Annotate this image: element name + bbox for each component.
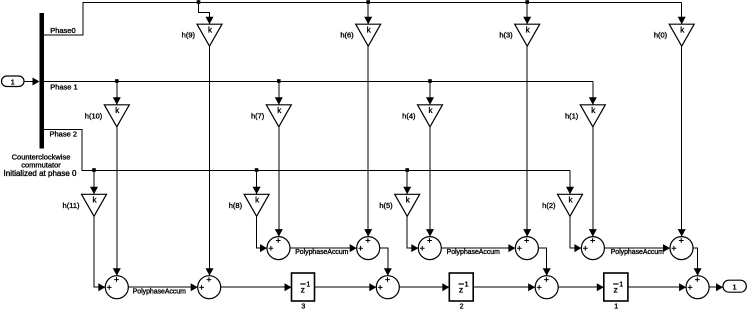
arrow SumB4 into Sum5: [694, 268, 702, 276]
wire SumB2 down to Sum3: [380, 248, 388, 276]
wire h(9) to Sum2: [209, 46, 211, 276]
value label h(1): [565, 111, 579, 120]
wire h(0) to SumB4: [681, 46, 683, 236]
value label Z2 = 2: [460, 304, 464, 311]
arrow Sum4 into Z1: [597, 283, 604, 291]
svg-text:z: z: [459, 284, 463, 294]
svg-text:h(9): h(9): [182, 31, 196, 40]
arrow h(11) into Sum1: [98, 283, 105, 291]
svg-text:Phase0: Phase0: [50, 26, 75, 35]
junction Phase2 to h(11): [92, 168, 96, 172]
arrow into h(8): [253, 187, 261, 195]
gain h(2): [558, 194, 583, 216]
label PolyphaseAccum 2: [295, 249, 348, 256]
arrow SumB2 into Sum3: [384, 268, 392, 276]
sum SumA3: [418, 237, 441, 260]
arrow into commutator: [33, 78, 40, 86]
wire Sum2 to Z3: [221, 286, 292, 288]
sum SumB4: [670, 237, 693, 260]
svg-text:h(2): h(2): [542, 201, 556, 210]
arrow into h(1): [589, 97, 597, 105]
gain h(1): [580, 105, 605, 127]
label PolyphaseAccum 3: [447, 249, 500, 256]
wire Phase0 to h(6): [367, 3, 369, 25]
arrow h(8) into SumA2: [260, 244, 267, 252]
wire In1 to commutator: [24, 81, 33, 83]
value label h(0): [654, 31, 668, 40]
svg-text:PolyphaseAccum: PolyphaseAccum: [447, 249, 500, 256]
value label h(5): [379, 201, 393, 210]
gain h(0): [669, 24, 694, 46]
arrow into h(5): [403, 187, 411, 195]
wire h(10) to Sum1: [116, 127, 118, 276]
junction Phase0 to h(3): [525, 0, 529, 4]
svg-text:h(4): h(4): [402, 111, 416, 120]
gain h(9): [197, 24, 222, 46]
sum SumB3: [515, 237, 538, 260]
svg-text:Phase 2: Phase 2: [50, 129, 78, 138]
value label Z1 = 1: [614, 304, 618, 311]
gain h(8): [244, 194, 269, 216]
arrow into h(3): [523, 17, 531, 25]
junction Phase1 to h(7): [277, 79, 281, 83]
arrow h(9) into Sum2: [206, 268, 214, 276]
wire h(2) to SumA4 left: [570, 216, 581, 248]
wire Phase0 jog to h(9): [199, 3, 210, 25]
sum Sum5: [686, 276, 709, 299]
svg-text:3: 3: [301, 304, 305, 311]
wire Phase2 from bar: [44, 130, 570, 171]
svg-text:1: 1: [614, 304, 618, 311]
commutator bar: [40, 13, 45, 149]
arrow into h(6): [364, 17, 372, 25]
svg-text:1: 1: [733, 282, 737, 291]
svg-text:Phase 1: Phase 1: [50, 82, 78, 91]
arrow h(2) into SumA4: [574, 244, 581, 252]
arrow Z2 into Sum4: [528, 283, 535, 291]
wire Phase0 from bar: [44, 3, 682, 36]
svg-text:PolyphaseAccum: PolyphaseAccum: [295, 249, 348, 256]
node Phase0 label: [50, 26, 75, 35]
sum Sum1: [105, 276, 128, 299]
wire Phase0 to h(3): [526, 3, 528, 25]
arrow h(1) into SumA4: [589, 229, 597, 237]
svg-text:Initialized at phase 0: Initialized at phase 0: [4, 169, 77, 178]
wire h(1) to SumA4: [592, 127, 594, 237]
value label h(3): [499, 31, 513, 40]
wire h(4) to SumA3: [429, 127, 431, 237]
wire Phase1 to h(4): [429, 82, 431, 105]
delay Z1: [604, 273, 628, 301]
svg-text:h(8): h(8): [229, 201, 243, 210]
svg-text:h(0): h(0): [654, 31, 668, 40]
node Phase2 label: [50, 129, 78, 138]
wire Sum3 to Z2: [399, 286, 449, 288]
arrow h(5) into SumA3: [411, 244, 418, 252]
value label h(8): [229, 201, 243, 210]
wire Z3 to Sum3: [315, 286, 377, 288]
value label Z3 = 3: [301, 304, 305, 311]
junction Phase1 to h(4): [428, 79, 432, 83]
wire SumA3 to SumB3: [441, 247, 515, 249]
wire SumA4 to SumB4: [604, 247, 670, 249]
wire Sum1 to Sum2: [128, 286, 197, 288]
value label h(6): [340, 31, 354, 40]
value label h(4): [402, 111, 416, 120]
svg-text:1: 1: [306, 281, 310, 288]
svg-text:2: 2: [460, 304, 464, 311]
gain h(6): [356, 24, 381, 46]
wire h(5) to SumA3 left: [407, 216, 418, 248]
arrow SumA2 into SumB2: [350, 244, 357, 252]
wire h(6) to SumB2: [367, 46, 369, 236]
svg-text:z: z: [614, 284, 618, 294]
wire SumB3 down to Sum4: [538, 248, 546, 276]
wire Phase1 to h(7): [278, 82, 280, 105]
value label h(7): [251, 111, 265, 120]
label PolyphaseAccum 1: [133, 288, 186, 295]
arrow Z3 into Sum3: [369, 283, 376, 291]
sum Sum3: [376, 276, 399, 299]
arrow into h(4): [426, 97, 434, 105]
input port In1: [2, 76, 25, 87]
junction Phase0 to h(6): [366, 0, 370, 4]
svg-text:h(10): h(10): [85, 111, 103, 120]
gain h(10): [104, 105, 129, 127]
sum Sum2: [198, 276, 221, 299]
arrow SumB3 into Sum4: [543, 268, 551, 276]
wire SumB4 down to Sum5: [693, 248, 698, 276]
wire Sum5 to Out1: [709, 286, 723, 288]
wire Phase2 to h(2): [569, 171, 571, 195]
wire Phase2 to h(8): [256, 171, 258, 195]
wire h(7) to SumA2: [278, 127, 280, 237]
svg-text:1: 1: [465, 281, 469, 288]
junction Phase1 to h(10): [115, 79, 119, 83]
arrow Sum2 into Z3: [285, 283, 292, 291]
wire h(11) to Sum1 left: [94, 216, 105, 287]
arrow SumA4 into SumB4: [663, 244, 670, 252]
svg-text:z: z: [301, 284, 305, 294]
svg-text:h(7): h(7): [251, 111, 265, 120]
gain h(3): [515, 24, 540, 46]
value label h(10): [85, 111, 103, 120]
arrow into h(7): [275, 97, 283, 105]
wire Phase2 to h(5): [406, 171, 408, 195]
svg-text:h(5): h(5): [379, 201, 393, 210]
value label h(9): [182, 31, 196, 40]
arrow SumA3 into SumB3: [508, 244, 515, 252]
arrow Sum5 into Out1: [716, 283, 723, 291]
junction Phase2 to h(8): [255, 168, 259, 172]
wire SumA2 to SumB2: [290, 247, 357, 249]
junction Phase2 to h(5): [405, 168, 409, 172]
sum SumB2: [357, 237, 380, 260]
svg-text:1: 1: [619, 281, 623, 288]
wire Z2 to Sum4: [473, 286, 535, 288]
wire Phase1 to h(10): [116, 82, 118, 105]
arrow h(3) into SumB3: [523, 229, 531, 237]
wire Phase0 to h(0): [681, 3, 683, 25]
sum SumA4: [581, 237, 604, 260]
output port Out1: [723, 280, 746, 292]
arrow into h(11): [90, 187, 98, 195]
svg-text:h(6): h(6): [340, 31, 354, 40]
gain h(7): [266, 105, 291, 127]
arrow h(0) into SumB4: [678, 229, 686, 237]
value label h(11): [63, 201, 80, 210]
wire Phase1 from bar: [44, 81, 593, 83]
label Counterclockwise commutator Initialized at phase 0: [4, 152, 77, 177]
junction Phase0 to h(9): [197, 0, 201, 4]
svg-text:h(3): h(3): [499, 31, 513, 40]
svg-text:PolyphaseAccum: PolyphaseAccum: [611, 249, 664, 256]
arrow into h(9): [206, 17, 214, 25]
arrow Sum3 into Z2: [442, 283, 449, 291]
value label h(2): [542, 201, 556, 210]
gain h(4): [418, 105, 443, 127]
arrow Z1 into Sum5: [679, 283, 686, 291]
svg-text:PolyphaseAccum: PolyphaseAccum: [133, 288, 186, 295]
svg-text:h(1): h(1): [565, 111, 579, 120]
delay Z3: [292, 273, 315, 301]
node Phase1 label: [50, 82, 78, 91]
svg-text:h(11): h(11): [63, 201, 80, 210]
gain h(5): [395, 194, 420, 216]
arrow Sum1 into Sum2: [191, 283, 198, 291]
svg-text:1: 1: [11, 78, 15, 87]
delay Z2: [449, 273, 473, 301]
wire Phase1 to h(1): [592, 82, 594, 105]
wire Phase2 to h(11): [93, 171, 95, 195]
arrow h(10) into Sum1: [113, 268, 121, 276]
arrow h(4) into SumA3: [426, 229, 434, 237]
sum Sum4: [535, 276, 558, 299]
arrow into h(10): [113, 97, 121, 105]
arrow into h(2): [566, 187, 574, 195]
label PolyphaseAccum 4: [611, 249, 664, 256]
wire h(8) to SumA2 left: [257, 216, 267, 248]
wire h(3) to SumB3: [526, 46, 528, 236]
wire Z1 to Sum5: [628, 286, 686, 288]
arrow h(6) into SumB2: [364, 229, 372, 237]
gain h(11): [82, 194, 107, 216]
arrow h(7) into SumA2: [275, 229, 283, 237]
wire Sum4 to Z1: [558, 286, 604, 288]
arrow into h(0): [678, 17, 686, 25]
sum SumA2: [267, 237, 290, 260]
